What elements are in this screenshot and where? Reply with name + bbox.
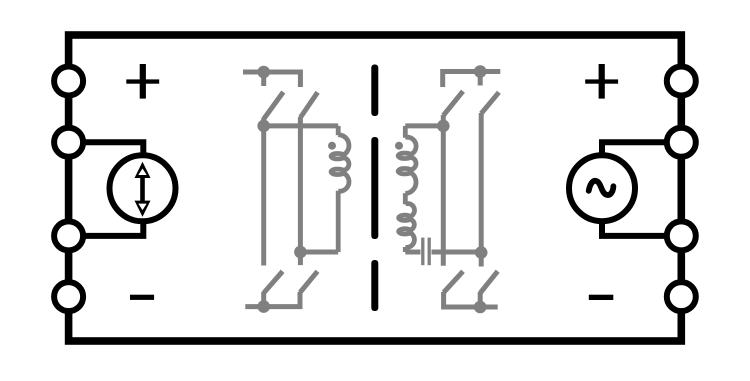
secondary lower bump 1 — [405, 204, 414, 217]
switch S8 blade — [480, 271, 498, 293]
primary coil bump 1 — [338, 135, 349, 155]
wire: right top rail — [443, 72, 501, 88]
secondary upper bump 3 — [405, 172, 416, 193]
enclosure border — [69, 35, 682, 341]
switch S1 blade — [264, 92, 284, 119]
DC source B1 body — [110, 155, 176, 221]
wire: primary top lead — [336, 126, 341, 135]
wire: node B vertical — [298, 117, 303, 265]
wire: right bottom rail — [444, 292, 498, 307]
switch S6 blade — [481, 92, 499, 113]
DC source arrowhead down — [135, 201, 151, 217]
wire: left top rail — [243, 72, 300, 87]
primary coil bump 3 — [338, 173, 349, 191]
isolation barrier dash 1 — [371, 65, 378, 117]
secondary upper bump 1 — [405, 137, 416, 155]
secondary lower bump 3 — [405, 233, 414, 248]
secondary upper loop 1 — [398, 153, 411, 158]
DC source arrowhead up — [135, 162, 151, 178]
junction dot: right bottom rail — [474, 301, 487, 314]
primary coil bump 2 — [343, 158, 349, 171]
wire: secondary top lead — [403, 126, 408, 138]
wire: secondary bottom to capacitor — [405, 250, 420, 255]
switch S2 blade — [300, 92, 317, 117]
wire: DC source bottom wire — [69, 221, 144, 236]
wire: left bottom rail — [245, 292, 300, 307]
junction dot: left bottom rail — [257, 300, 270, 313]
wire: S5 pivot to node C — [441, 115, 446, 126]
secondary upper bump 2 — [410, 157, 416, 170]
junction dot: right top rail — [474, 65, 487, 78]
wire: primary bottom to node B — [300, 250, 338, 255]
wire: capacitor to node D — [432, 250, 482, 255]
AC source G1 body — [569, 155, 635, 221]
DC source arrow shaft — [140, 177, 145, 202]
wire: node A to primary top — [264, 123, 339, 128]
transformer secondary winding L2 — [398, 126, 416, 252]
wire: S1 pivot to node A — [261, 118, 266, 126]
gray bridge: left primary side — [243, 72, 338, 307]
transformer primary winding L1 — [331, 126, 349, 252]
secondary upper loop 2 — [398, 169, 411, 174]
wire: AC source bottom wire — [602, 221, 681, 236]
switch S5 blade — [443, 91, 463, 115]
primary coil loop 1 — [331, 154, 344, 159]
junction dot: node C — [437, 120, 450, 133]
capacitor C1 plate right — [428, 238, 431, 266]
wire: node C vertical — [441, 126, 446, 266]
isolation barrier dash 3 — [371, 260, 378, 311]
isolation barrier dash 2 — [371, 137, 378, 239]
switch S3 blade — [264, 271, 283, 293]
primary coil loop 2 — [331, 169, 344, 174]
label: left minus sign — [130, 295, 154, 300]
terminal T3 — [54, 221, 83, 250]
wire: S8 pivot stub — [478, 292, 483, 307]
AC source sine symbol — [589, 181, 614, 195]
wire: secondary top to node C — [405, 123, 443, 128]
secondary lower bump 2 — [410, 219, 414, 230]
wire: node D vertical — [479, 113, 484, 267]
gray bridge: right secondary side — [405, 72, 500, 308]
junction dot: node B — [294, 246, 307, 259]
capacitor C1 plate left — [421, 238, 424, 266]
wire: S1 fixed contact stub — [261, 72, 266, 86]
switch S7 blade — [444, 271, 463, 292]
secondary polarity dot — [395, 142, 403, 150]
secondary lower loop 1 — [399, 215, 411, 220]
wire: S5 fixed contact stub — [478, 72, 483, 86]
terminal T6 — [667, 128, 696, 157]
wire: primary bottom lead — [336, 191, 341, 252]
wire: secondary mid lead — [403, 193, 408, 204]
label: right plus sign — [585, 64, 618, 99]
label: right minus sign — [589, 295, 614, 300]
wire: secondary bottom lead — [403, 247, 408, 252]
terminal T5 — [667, 67, 696, 96]
junction dot: node A — [257, 120, 270, 133]
terminal T2 — [54, 128, 83, 157]
terminal T8 — [667, 282, 696, 311]
terminal T4 — [54, 282, 83, 311]
wire: S3 pivot stub — [261, 292, 266, 307]
junction dot: left top rail — [257, 66, 270, 79]
terminal T1 — [54, 67, 83, 96]
wire: AC source top wire — [602, 142, 681, 155]
secondary lower loop 2 — [399, 229, 411, 234]
terminal T7 — [667, 221, 696, 250]
junction dot: node D — [475, 246, 488, 259]
wire: node A vertical — [261, 126, 266, 266]
wire: DC source top wire — [69, 142, 144, 155]
switch S4 blade — [300, 271, 318, 292]
label: left plus sign — [126, 64, 159, 99]
primary polarity dot — [328, 142, 336, 150]
